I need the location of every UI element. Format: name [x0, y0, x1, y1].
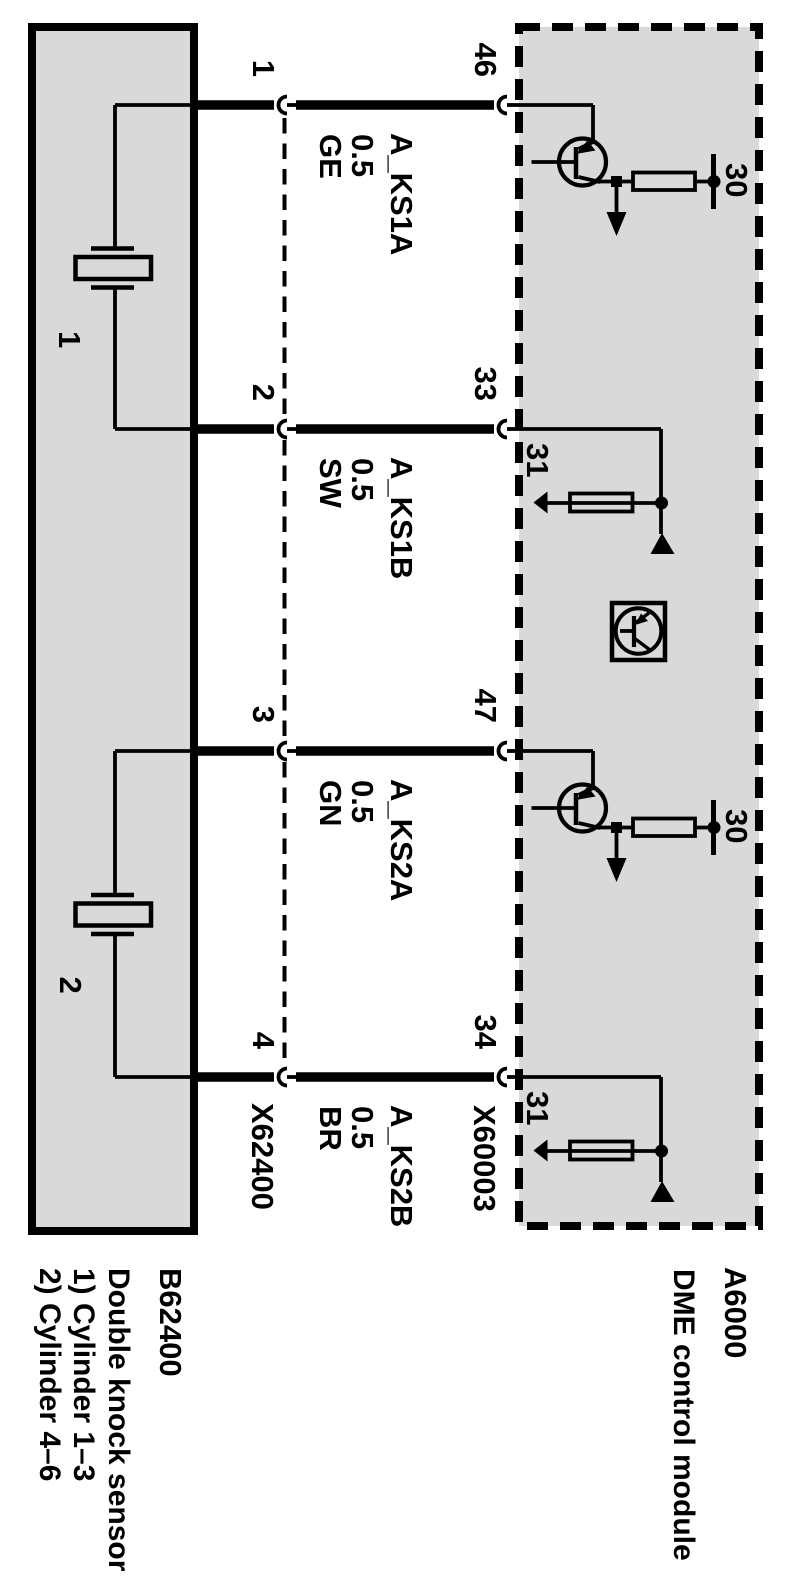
svg-text:A_KS1B: A_KS1B — [384, 457, 419, 579]
svg-text:31: 31 — [520, 1091, 555, 1125]
svg-text:A_KS2A: A_KS2A — [384, 779, 419, 901]
svg-text:1) Cylinder 1–3: 1) Cylinder 1–3 — [67, 1268, 100, 1481]
svg-text:DME control module: DME control module — [667, 1269, 700, 1561]
svg-text:2: 2 — [246, 384, 281, 401]
svg-text:31: 31 — [520, 443, 555, 477]
svg-text:47: 47 — [468, 689, 503, 723]
svg-text:X60003: X60003 — [467, 1105, 502, 1212]
svg-text:34: 34 — [468, 1015, 503, 1050]
svg-text:1: 1 — [246, 60, 281, 77]
svg-text:3: 3 — [246, 706, 281, 723]
svg-text:A6000: A6000 — [718, 1267, 753, 1358]
svg-text:46: 46 — [468, 43, 503, 77]
svg-text:4: 4 — [246, 1032, 281, 1050]
svg-text:A_KS2B: A_KS2B — [384, 1105, 419, 1227]
svg-text:B62400: B62400 — [153, 1268, 188, 1377]
svg-text:GE: GE — [313, 134, 348, 179]
svg-text:0.5: 0.5 — [345, 780, 380, 823]
svg-text:33: 33 — [468, 367, 503, 401]
svg-text:BR: BR — [313, 1106, 348, 1151]
svg-text:A_KS1A: A_KS1A — [384, 133, 419, 255]
svg-text:Double knock sensor: Double knock sensor — [102, 1268, 135, 1572]
svg-text:2: 2 — [53, 977, 88, 994]
svg-text:30: 30 — [719, 163, 754, 197]
svg-text:30: 30 — [719, 809, 754, 843]
svg-text:X62400: X62400 — [245, 1103, 280, 1210]
svg-text:0.5: 0.5 — [345, 458, 380, 501]
svg-text:1: 1 — [52, 331, 87, 348]
svg-text:0.5: 0.5 — [345, 1106, 380, 1149]
svg-text:0.5: 0.5 — [345, 134, 380, 177]
svg-text:2) Cylinder 4–6: 2) Cylinder 4–6 — [33, 1268, 66, 1481]
svg-text:GN: GN — [313, 780, 348, 827]
svg-text:SW: SW — [313, 458, 348, 509]
